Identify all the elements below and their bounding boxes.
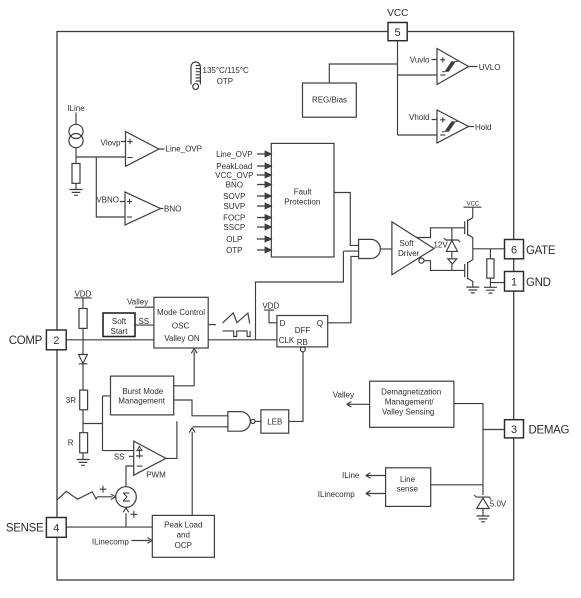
svg-text:VBNO: VBNO <box>96 195 119 204</box>
svg-text:3: 3 <box>511 424 517 436</box>
svg-text:SSCP: SSCP <box>223 223 245 232</box>
svg-text:BNO: BNO <box>164 205 181 214</box>
svg-text:Line_OVP: Line_OVP <box>166 144 202 153</box>
svg-text:sense: sense <box>397 485 419 494</box>
svg-text:Demagnetization: Demagnetization <box>381 387 441 396</box>
svg-text:Burst Mode: Burst Mode <box>122 387 163 396</box>
svg-text:SS: SS <box>138 317 149 326</box>
svg-text:1: 1 <box>511 277 517 289</box>
svg-text:Mode Control: Mode Control <box>157 308 205 317</box>
svg-text:VDD: VDD <box>262 301 279 310</box>
svg-text:BNO: BNO <box>226 180 243 189</box>
svg-text:UVLO: UVLO <box>479 63 501 72</box>
svg-text:Management/: Management/ <box>385 397 435 406</box>
svg-text:Protection: Protection <box>284 197 320 206</box>
svg-text:SS: SS <box>114 453 125 462</box>
svg-text:VDD: VDD <box>74 289 91 298</box>
svg-text:VCC: VCC <box>387 8 408 19</box>
svg-text:OTP: OTP <box>226 246 242 255</box>
svg-text:Soft: Soft <box>112 317 127 326</box>
svg-text:ILine: ILine <box>342 471 360 480</box>
svg-text:FOCP: FOCP <box>223 213 245 222</box>
svg-text:OSC: OSC <box>172 321 190 330</box>
svg-text:OCP: OCP <box>175 541 192 550</box>
svg-text:Valley Sensing: Valley Sensing <box>382 407 434 416</box>
svg-text:Valley: Valley <box>333 391 354 400</box>
svg-text:Σ: Σ <box>122 490 130 505</box>
svg-text:OLP: OLP <box>226 235 242 244</box>
svg-text:Q: Q <box>317 319 323 328</box>
svg-text:SOVP: SOVP <box>223 192 245 201</box>
svg-text:LEB: LEB <box>267 417 282 426</box>
svg-text:CLK: CLK <box>279 336 295 345</box>
svg-text:D: D <box>280 319 286 328</box>
svg-text:5: 5 <box>395 27 401 39</box>
svg-text:DFF: DFF <box>295 326 311 335</box>
svg-text:PWM: PWM <box>146 471 166 480</box>
svg-text:Vlovp: Vlovp <box>100 138 121 147</box>
svg-text:RB: RB <box>297 338 308 347</box>
svg-text:R: R <box>68 439 74 448</box>
svg-text:GATE: GATE <box>526 245 556 257</box>
svg-text:Hold: Hold <box>475 123 491 132</box>
svg-text:ILine: ILine <box>67 104 85 113</box>
svg-text:ILinecomp: ILinecomp <box>92 538 129 547</box>
svg-text:SENSE: SENSE <box>6 523 44 535</box>
svg-text:DEMAG: DEMAG <box>529 425 570 437</box>
svg-text:Valley ON: Valley ON <box>164 334 200 343</box>
svg-text:ILinecomp: ILinecomp <box>318 490 355 499</box>
svg-text:6: 6 <box>511 244 517 256</box>
svg-text:Driver: Driver <box>398 249 420 258</box>
svg-text:Peak Load: Peak Load <box>164 520 202 529</box>
svg-text:4: 4 <box>53 523 59 535</box>
svg-text:Vhold: Vhold <box>409 113 429 122</box>
svg-text:and: and <box>177 531 190 540</box>
svg-text:REG/Bias: REG/Bias <box>312 95 347 104</box>
svg-text:Start: Start <box>111 327 129 336</box>
svg-text:SUVP: SUVP <box>223 202 245 211</box>
svg-text:5.0V: 5.0V <box>490 500 507 509</box>
svg-text:12V: 12V <box>433 241 448 250</box>
svg-text:Soft: Soft <box>399 239 414 248</box>
svg-text:GND: GND <box>526 277 551 289</box>
svg-text:VCC_OVP: VCC_OVP <box>215 171 253 180</box>
svg-text:135°C/115°C: 135°C/115°C <box>203 66 250 75</box>
svg-text:OTP: OTP <box>217 77 233 86</box>
svg-text:Fault: Fault <box>294 187 313 196</box>
svg-text:COMP: COMP <box>9 335 43 347</box>
svg-text:Management: Management <box>118 396 165 405</box>
svg-text:Line_OVP: Line_OVP <box>216 150 252 159</box>
svg-text:3R: 3R <box>66 396 76 405</box>
svg-text:VCC: VCC <box>467 202 480 208</box>
svg-text:Valley: Valley <box>127 297 148 306</box>
svg-text:PeakLoad: PeakLoad <box>216 162 252 171</box>
svg-text:2: 2 <box>53 335 59 347</box>
svg-text:Vuvlo: Vuvlo <box>410 56 430 65</box>
svg-text:Line: Line <box>400 475 416 484</box>
